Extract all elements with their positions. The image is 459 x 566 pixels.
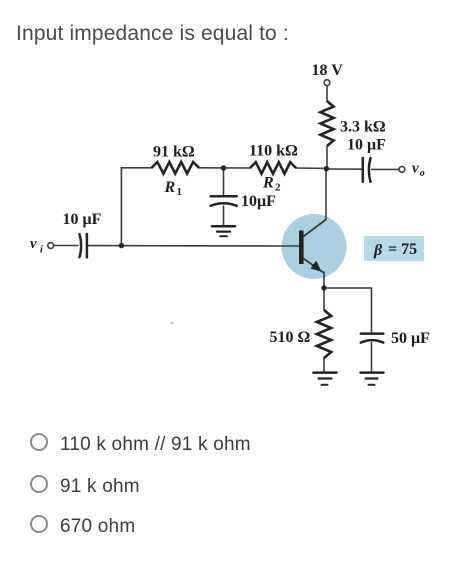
- svg-text:18 V: 18 V: [312, 62, 344, 79]
- svg-text:v: v: [412, 161, 419, 177]
- svg-text:v: v: [30, 236, 37, 252]
- svg-text:= 75: = 75: [388, 241, 417, 258]
- svg-text:10 μF: 10 μF: [63, 211, 102, 228]
- svg-text:i: i: [40, 245, 43, 256]
- svg-text:10μF: 10μF: [241, 193, 276, 210]
- svg-text:o: o: [420, 168, 425, 179]
- svg-text:10 μF: 10 μF: [347, 137, 386, 154]
- svg-text:510 Ω: 510 Ω: [270, 329, 311, 346]
- svg-text:R: R: [262, 175, 274, 192]
- svg-text:R: R: [164, 179, 176, 196]
- svg-text:91 kΩ: 91 kΩ: [153, 144, 195, 161]
- svg-text:1: 1: [177, 186, 183, 198]
- svg-text:50 μF: 50 μF: [391, 330, 430, 347]
- svg-text:110 kΩ: 110 kΩ: [249, 143, 298, 160]
- svg-text:3.3 kΩ: 3.3 kΩ: [340, 119, 386, 136]
- svg-text:β: β: [373, 242, 383, 259]
- svg-text:2: 2: [275, 182, 281, 194]
